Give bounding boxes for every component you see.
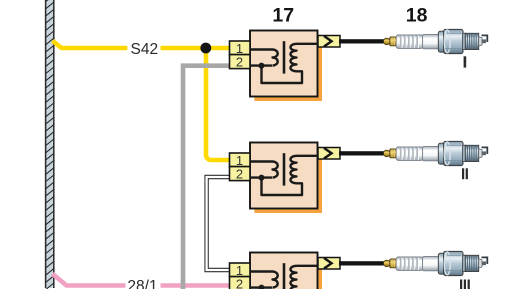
cylinder numeral I — [464, 56, 467, 67]
yellow feed wire down to coil II pin 1 — [206, 48, 230, 160]
ignition coil I (unit 17) — [230, 31, 341, 102]
grey wire over pink crossing — [181, 280, 186, 289]
wire S42 yellow, right segment to coil I pin 1 — [161, 46, 230, 51]
spark plug II (item 18) — [339, 141, 487, 165]
white wire coil II pin 2 to coil III pin 1 — [207, 177, 229, 270]
pink wire 28/1 from bus bar, left segment — [53, 274, 126, 286]
cylinder numeral II — [462, 168, 468, 179]
grey trigger wire to coil I pin 2 — [183, 66, 230, 289]
ignition coil II (unit 17) — [230, 143, 341, 214]
ignition coil III (unit 17) — [230, 253, 341, 289]
spark plug III (item 18) — [339, 251, 487, 275]
pink wire 28/1, right segment to coil III pin 2 — [161, 283, 230, 288]
svg-text:18: 18 — [406, 4, 428, 26]
svg-text:S42: S42 — [131, 41, 159, 58]
junction dot on S42 wire — [200, 43, 211, 54]
spark plug I (item 18) — [339, 29, 487, 53]
ground bus bar (hatched) — [45, 0, 54, 289]
wire S42 yellow from bus bar, left segment — [53, 41, 128, 48]
cylinder numeral III — [460, 280, 470, 289]
svg-text:17: 17 — [272, 4, 294, 26]
svg-text:28/1: 28/1 — [127, 278, 157, 289]
